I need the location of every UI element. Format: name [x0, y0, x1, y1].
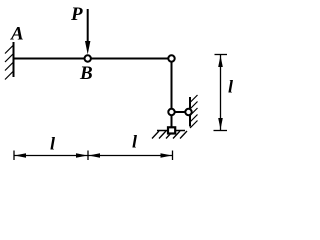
force P arrowhead [85, 41, 90, 55]
right dimension bottom tick [214, 130, 228, 132]
svg-text:l: l [228, 77, 233, 97]
bottom dimension middle left-pointing arrowhead [89, 153, 101, 158]
hinge on vertical member [168, 109, 174, 115]
bottom dimension left arrowhead [15, 153, 27, 158]
ground hatching [152, 131, 187, 139]
right wall line [189, 97, 191, 127]
vertical member [171, 59, 173, 128]
beam A to corner [14, 58, 172, 60]
bottom dimension line [14, 155, 173, 157]
svg-text:A: A [10, 24, 24, 45]
svg-text:l: l [50, 134, 55, 154]
right dimension line [220, 55, 222, 130]
slider block of bottom support [168, 127, 175, 133]
hinge at top right corner [168, 55, 174, 61]
bottom dimension right tick [172, 151, 174, 161]
fixed support wall at A [13, 42, 15, 77]
force P arrow line [87, 9, 89, 42]
bottom dimension left tick [13, 151, 15, 161]
bottom dimension middle right-pointing arrowhead [76, 153, 88, 158]
bottom dimension middle tick [87, 151, 89, 161]
bottom dimension right arrowhead [161, 153, 173, 158]
ground line of bottom support [157, 130, 185, 132]
svg-text:P: P [70, 4, 83, 25]
horizontal link [172, 111, 189, 113]
right dimension top tick [215, 54, 228, 56]
hinge at right wall [185, 109, 191, 115]
svg-text:B: B [79, 63, 93, 84]
right dimension down arrowhead [218, 118, 223, 130]
right dimension up arrowhead [218, 56, 223, 68]
svg-text:l: l [132, 132, 137, 152]
right wall hatching [190, 95, 198, 128]
hinge B [85, 55, 91, 61]
wall hatching at A [5, 46, 13, 80]
